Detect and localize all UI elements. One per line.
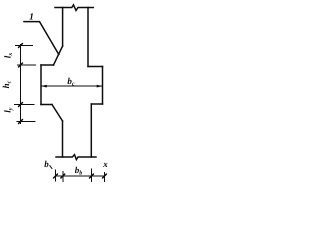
block bottom left edge [41, 104, 52, 106]
tick at chamfer start [19, 44, 23, 48]
left top chamfer [54, 46, 63, 65]
bottom extension line x end [104, 172, 106, 182]
block bottom right edge [91, 103, 102, 105]
svg-text:b: b [44, 159, 49, 169]
arrowhead b_c right [97, 85, 103, 88]
label b_x subscript tail [50, 165, 53, 169]
block left edge [40, 65, 42, 105]
svg-text:1: 1 [29, 13, 34, 23]
tick bottom dim shaft right [90, 174, 94, 178]
bottom extension line shaft right [91, 169, 93, 183]
tick at chamfer end [19, 120, 23, 124]
bottom break line with zigzag [56, 155, 96, 160]
bottom shaft right wire [90, 104, 92, 157]
extension line at chamfer end [17, 121, 36, 123]
tick bottom dim left end [54, 174, 58, 178]
leader line for callout 1 [24, 22, 59, 55]
left dim vertical line [20, 44, 22, 124]
svg-text:bb: bb [75, 165, 83, 177]
left bottom chamfer [52, 105, 63, 122]
svg-text:lx: lx [3, 53, 15, 59]
extension line at block bottom [14, 104, 35, 106]
bottom extension line left end [55, 170, 57, 182]
arrowhead b_c left [41, 85, 47, 88]
tick bottom dim shaft left [61, 174, 65, 178]
top right step [88, 66, 103, 68]
top break line with zigzag [55, 5, 93, 11]
dimension b_c line [41, 85, 103, 87]
bottom dim line [56, 175, 105, 177]
svg-text:x: x [102, 159, 108, 169]
svg-text:bc: bc [67, 76, 75, 88]
block top edge [41, 64, 54, 66]
extension line at block top [17, 64, 36, 66]
extension line at chamfer start [15, 45, 33, 47]
top shaft left wire [62, 8, 64, 47]
block right edge [102, 67, 104, 105]
tick at block top [19, 63, 23, 67]
bottom shaft left wire [62, 121, 64, 157]
tick at block bottom [19, 103, 23, 107]
tick bottom dim x end [103, 174, 107, 178]
svg-text:hc: hc [1, 80, 13, 88]
top shaft right wire [87, 8, 89, 67]
svg-text:ly: ly [3, 107, 15, 113]
bottom extension line shaft left [62, 171, 64, 182]
